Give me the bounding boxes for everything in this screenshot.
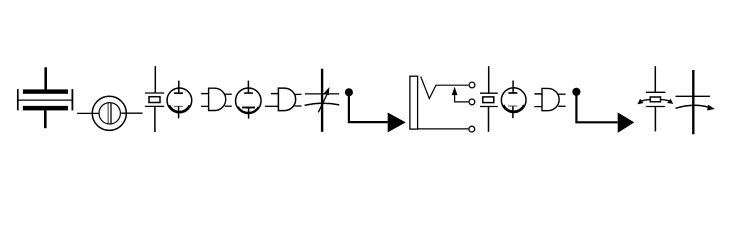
J1 ring contact arrowhead: [452, 88, 456, 94]
C1 adjustment arrowhead: [325, 89, 329, 95]
Y2 crystal box: [149, 97, 160, 103]
U2 body: [278, 88, 295, 111]
Y3 bottom plate: [480, 106, 498, 108]
vacuum tube V1 (diode): [167, 81, 192, 119]
V2 cathode bar: [242, 107, 255, 109]
U2 input stub B: [265, 105, 278, 107]
U1 input stub A: [201, 93, 209, 95]
Y1 left holder plate: [17, 89, 19, 110]
Y2 bottom plate: [145, 105, 164, 107]
Y4 arc left arrowhead: [638, 100, 642, 104]
U2 input stub A: [271, 93, 279, 95]
V2 top lead: [247, 81, 249, 94]
V3 envelope bottom heavy arc: [504, 105, 524, 111]
vacuum tube V3 (diode): [501, 81, 526, 119]
wire Y1 to lamp DS1: [77, 112, 100, 114]
Y4 adjustment arc: [640, 99, 671, 101]
Y3 crystal box: [483, 97, 494, 103]
Y4 top plate: [646, 91, 666, 93]
Y1 bottom electrode plate: [23, 106, 68, 111]
Y1 right holder plate: [71, 89, 73, 110]
Y4 top lead: [654, 66, 656, 92]
U1 body: [209, 88, 226, 110]
V1 envelope: [167, 88, 192, 113]
J1 sleeve contact: [418, 128, 468, 130]
C2 curved arrow plate: [676, 105, 709, 108]
V3 cathode bar: [508, 105, 517, 107]
Y3 bottom lead: [488, 107, 490, 132]
U1 output stub B: [225, 105, 232, 107]
wire node B to arrow: [576, 92, 617, 123]
Y3 top plate: [480, 92, 498, 94]
J1 ring terminal: [469, 99, 475, 105]
crystal Y1 (quartz in holder): [18, 67, 73, 128]
AND gate U1: [201, 88, 232, 110]
signal flow arrow 1: [388, 113, 406, 133]
AND gate U2: [265, 88, 302, 111]
C2 arrowhead: [708, 106, 714, 110]
J1 ring contact: [455, 94, 469, 102]
phone jack J1: [410, 76, 475, 132]
V1 top lead: [178, 81, 180, 94]
C2 fixed plate: [676, 95, 711, 97]
wire node A to arrow: [349, 92, 388, 122]
Y4 crystal box: [650, 97, 660, 102]
DS1 right chord: [110, 103, 112, 123]
C1 adjustment arrow shaft: [318, 95, 327, 113]
U3 output stub A: [558, 93, 565, 95]
C2 feedthrough wire: [692, 70, 694, 134]
DS1 left chord: [107, 103, 109, 123]
U2 output stub B: [295, 105, 302, 107]
V2 envelope bottom heavy arc: [238, 107, 259, 113]
signal flow arrow 2: [618, 112, 635, 132]
V3 bottom lead: [512, 106, 514, 118]
J1 tip contact: [421, 77, 469, 99]
crystal Y2 (vertical resonator): [145, 66, 164, 132]
junction node A: [345, 88, 353, 96]
V3 top lead: [512, 81, 514, 94]
Y1 top lead: [44, 67, 47, 91]
J1 barrel: [410, 76, 418, 129]
DS1 envelope circle: [92, 96, 126, 130]
V2 envelope: [236, 88, 261, 114]
variable capacitor C1: [305, 69, 340, 132]
V1 bottom lead: [178, 107, 180, 119]
V1 cathode bar: [174, 105, 183, 107]
U1 output stub A: [225, 93, 232, 95]
U3 output stub B: [558, 105, 565, 107]
AND gate U3: [534, 88, 565, 110]
variable capacitor C2: [676, 70, 714, 134]
lamp DS1 (indicator lamp): [92, 96, 126, 130]
Y1 crystal slab line: [18, 99, 73, 101]
Y2 top lead: [154, 66, 156, 93]
Y1 bottom lead: [44, 110, 47, 128]
Y1 top electrode plate: [23, 89, 68, 93]
V2 anode bar: [244, 92, 253, 94]
V3 anode bar: [508, 92, 517, 94]
V2 bottom lead: [248, 108, 250, 119]
V1 anode bar: [174, 92, 183, 94]
crystal Y3 (vertical resonator): [480, 66, 498, 132]
junction node B: [572, 88, 580, 96]
U1 input stub B: [201, 105, 209, 107]
Y3 top lead: [488, 66, 490, 93]
Y4 arc right arrowhead: [668, 100, 672, 104]
U3 input stub B: [534, 106, 542, 108]
J1 tip terminal: [469, 82, 475, 88]
Y2 bottom lead: [154, 106, 156, 132]
V1 envelope bottom heavy arc: [169, 105, 189, 111]
U2 output stub A: [295, 93, 302, 95]
U3 body: [542, 88, 559, 110]
Y4 bottom lead: [654, 107, 656, 132]
C1 feedthrough wire: [321, 69, 323, 132]
U3 input stub A: [534, 93, 542, 95]
variable crystal Y4 (adjustable resonator): [638, 66, 672, 131]
J1 sleeve terminal: [469, 126, 475, 132]
Y4 bottom plate: [646, 106, 665, 108]
vacuum tube V2 (diode): [236, 81, 261, 119]
DS1 inner circle: [99, 103, 120, 124]
Y2 top plate: [145, 92, 164, 94]
C1 fixed plate: [305, 93, 339, 95]
wire lamp DS1 to crystal Y2: [121, 112, 142, 114]
C1 curved plate: [305, 103, 340, 105]
V3 envelope: [501, 88, 526, 113]
